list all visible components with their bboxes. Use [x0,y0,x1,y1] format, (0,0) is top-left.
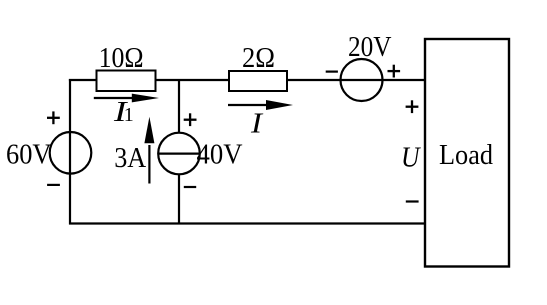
wire through 60V source [69,132,71,174]
resistor R 2ohm [229,71,287,91]
wire through 20V source [341,79,382,81]
wire left vertical branch [69,79,71,225]
minus sign load [406,200,419,202]
voltage source 20V [341,59,383,101]
minus sign 60V [47,184,60,186]
wire top horizontal [69,79,426,81]
svg-text:U: U [401,143,421,174]
40V source bar [158,153,200,155]
plus sign 20V [388,65,401,78]
plus sign load [406,100,419,113]
current arrow I [228,100,293,110]
wire middle vertical branch [178,80,180,224]
svg-text:60V: 60V [6,140,52,171]
minus sign 20V [326,70,338,72]
resistor R 10ohm [97,71,156,92]
svg-text:Load: Load [439,140,493,171]
voltage source 40V [158,133,200,175]
minus sign 40V [184,186,196,188]
current arrow I1 [94,94,159,103]
svg-text:3A: 3A [114,143,147,174]
svg-text:1: 1 [124,104,134,126]
svg-text:10Ω: 10Ω [99,43,144,74]
svg-text:40V: 40V [197,140,243,171]
load box [425,39,509,267]
svg-text:2Ω: 2Ω [242,43,275,74]
current arrow 3A [144,117,154,184]
plus sign 60V [47,111,60,124]
voltage source 60V [50,132,92,174]
plus sign 40V [184,113,197,126]
svg-text:I: I [250,109,264,140]
svg-text:20V: 20V [348,32,392,63]
wire bottom horizontal [69,222,425,224]
